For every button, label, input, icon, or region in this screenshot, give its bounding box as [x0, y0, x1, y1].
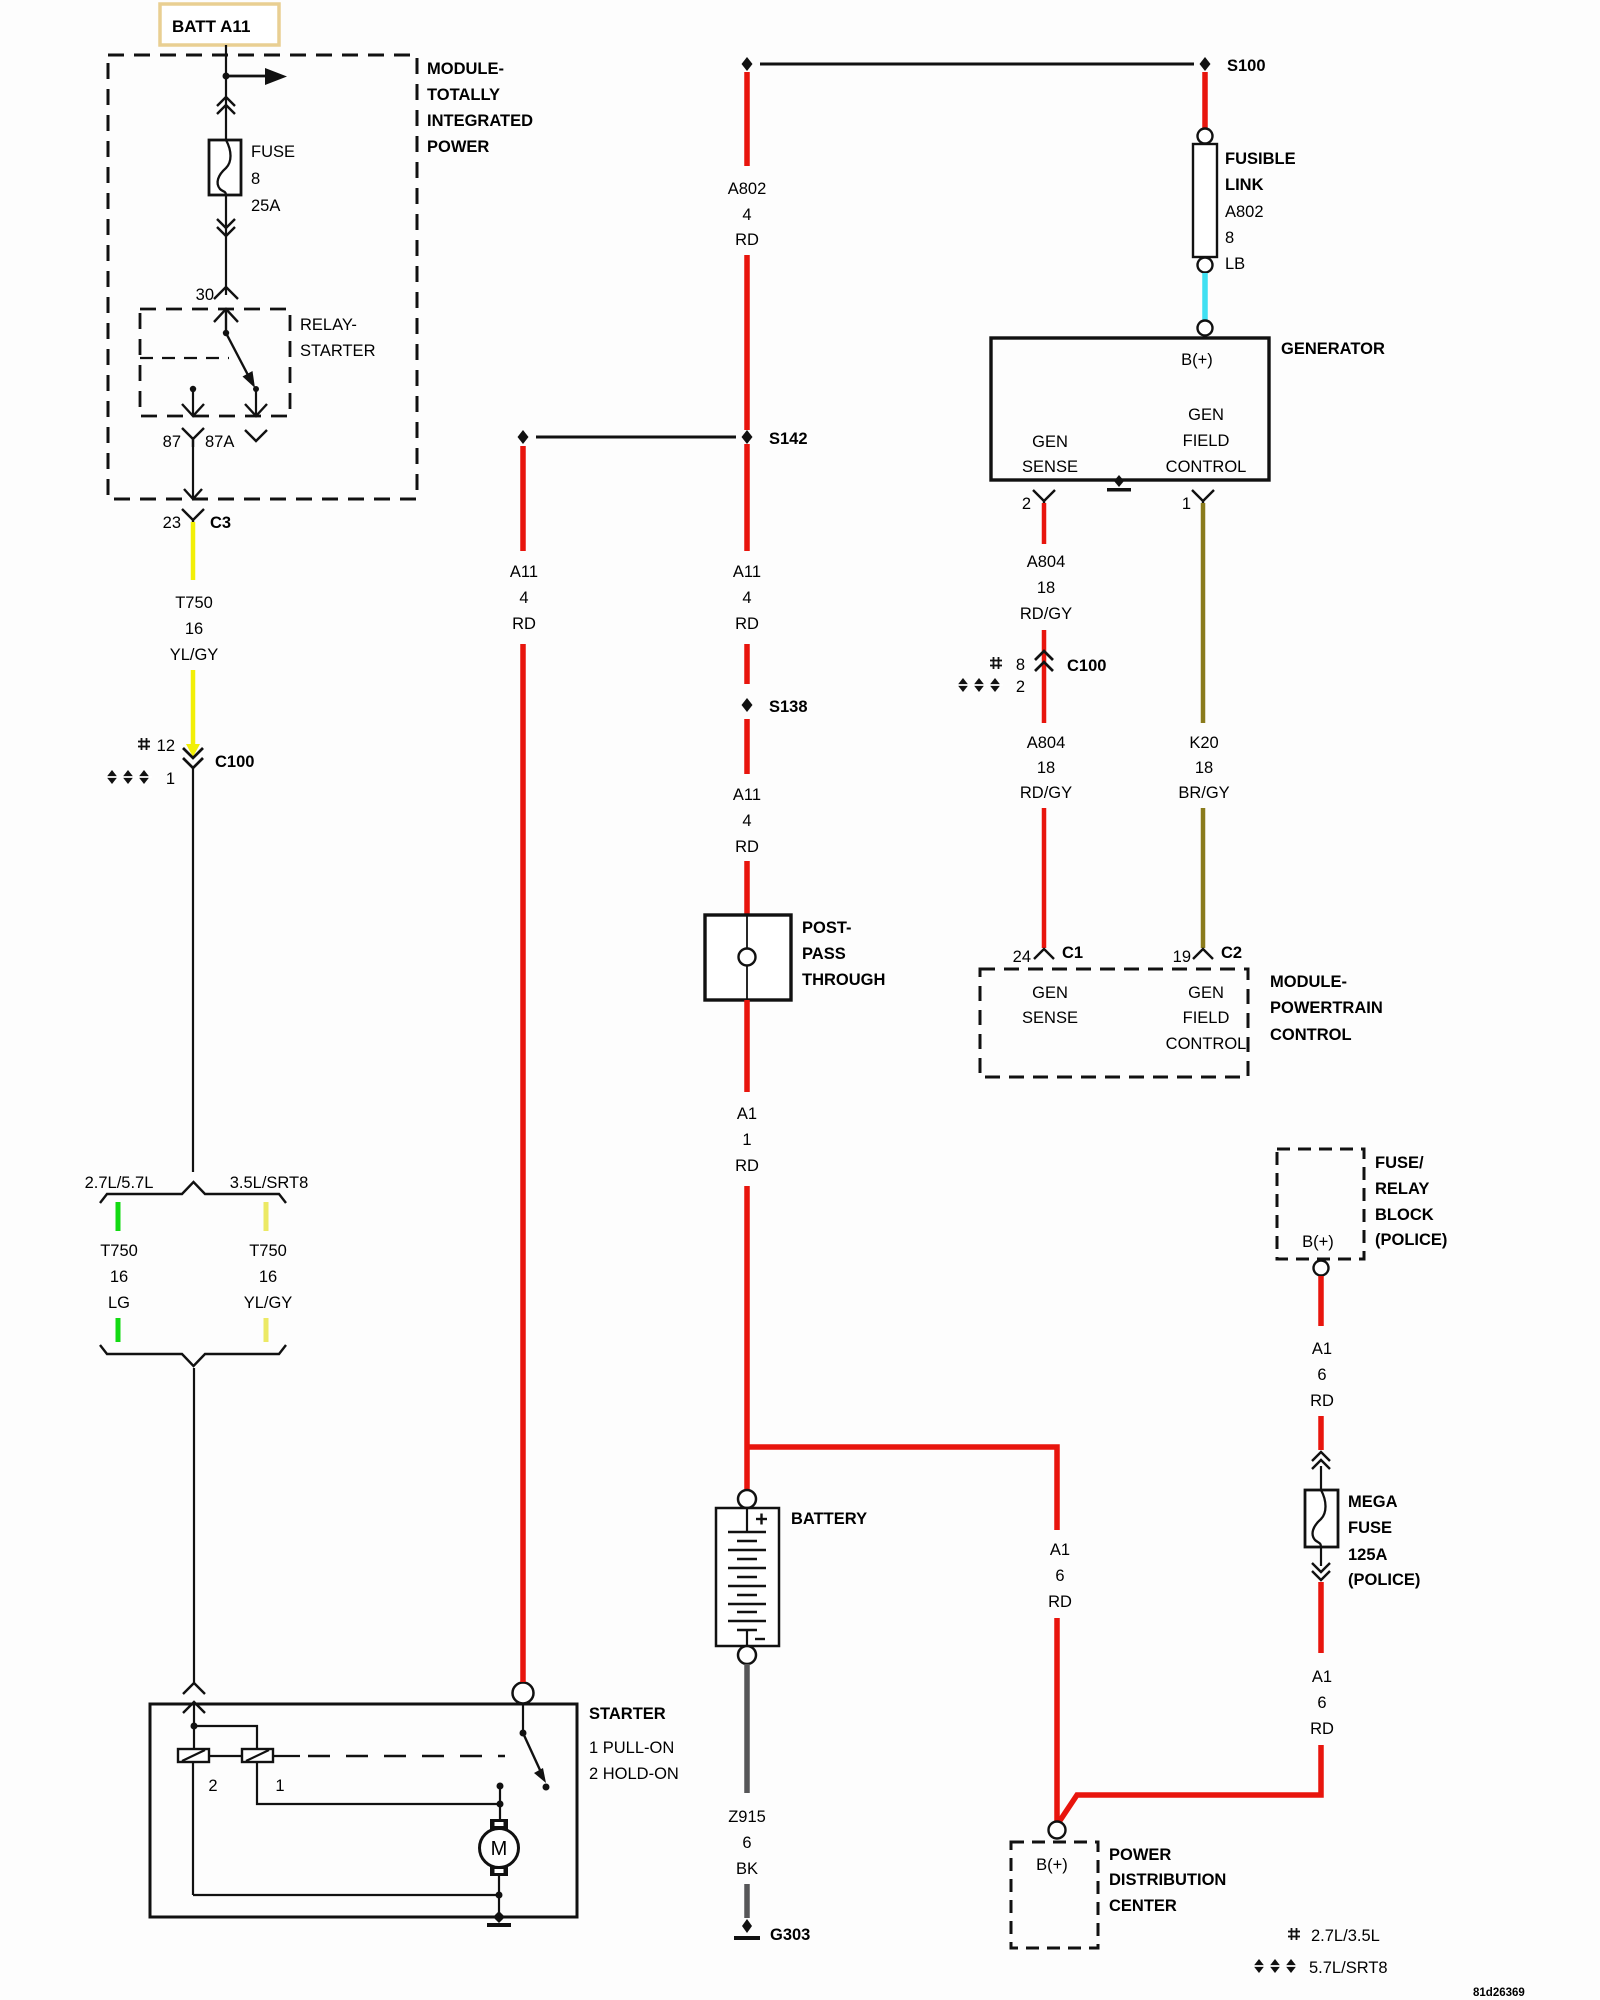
svg-text:1: 1 — [275, 1777, 284, 1795]
wire motor to ground — [193, 1876, 503, 1917]
connector C100 left half — [104, 737, 254, 788]
svg-text:RELAY-: RELAY- — [300, 316, 357, 334]
svg-text:2 HOLD-ON: 2 HOLD-ON — [589, 1765, 679, 1783]
svg-text:T750: T750 — [249, 1242, 287, 1260]
relay coil 2 — [178, 1749, 218, 1795]
svg-text:125A: 125A — [1348, 1546, 1388, 1564]
svg-text:M: M — [491, 1838, 508, 1860]
svg-text:B(+): B(+) — [1302, 1233, 1334, 1251]
svg-text:GEN: GEN — [1188, 984, 1224, 1002]
svg-text:23: 23 — [163, 514, 181, 532]
svg-text:(POLICE): (POLICE) — [1348, 1571, 1420, 1589]
svg-text:STARTER: STARTER — [300, 342, 376, 360]
svg-text:A804: A804 — [1027, 734, 1066, 752]
svg-text:2: 2 — [1016, 678, 1025, 696]
node engine variant merge — [100, 1345, 286, 1366]
svg-text:FUSE/: FUSE/ — [1375, 1154, 1424, 1172]
svg-text:B(+): B(+) — [1181, 351, 1213, 369]
svg-text:T750: T750 — [100, 1242, 138, 1260]
svg-text:POST-: POST- — [802, 919, 852, 937]
svg-text:CONTROL: CONTROL — [1166, 1035, 1247, 1053]
svg-text:S142: S142 — [769, 430, 808, 448]
connector PDC B+ ring — [1049, 1822, 1066, 1839]
svg-text:FUSIBLE: FUSIBLE — [1225, 150, 1296, 168]
wire A1 1 RD — [735, 1000, 759, 1490]
svg-text:BATT A11: BATT A11 — [172, 17, 250, 36]
junction POST-PASS THROUGH — [705, 915, 885, 1000]
pin 87A — [205, 430, 267, 451]
svg-text:YL/GY: YL/GY — [244, 1294, 293, 1312]
svg-text:4: 4 — [742, 812, 751, 830]
svg-text:18: 18 — [1037, 759, 1055, 777]
svg-text:RD/GY: RD/GY — [1020, 784, 1072, 802]
connector double chevron up — [217, 97, 235, 114]
svg-text:RELAY: RELAY — [1375, 1180, 1429, 1198]
svg-text:2.7L/5.7L: 2.7L/5.7L — [85, 1174, 154, 1192]
relay pin 87A leg — [245, 389, 267, 416]
svg-text:C100: C100 — [1067, 657, 1106, 675]
svg-text:BK: BK — [736, 1860, 758, 1878]
svg-text:RD: RD — [512, 615, 536, 633]
svg-text:FIELD: FIELD — [1183, 432, 1230, 450]
wire starter feed internal — [191, 1704, 258, 1749]
wire A1 6 RD police upper — [1310, 1276, 1334, 1450]
wire K20 18 BR/GY — [1178, 503, 1229, 948]
svg-text:YL/GY: YL/GY — [170, 646, 219, 664]
svg-text:INTEGRATED: INTEGRATED — [427, 112, 533, 130]
pin 87 — [163, 428, 204, 451]
wire T750 16 LG green — [100, 1202, 138, 1342]
svg-text:RD/GY: RD/GY — [1020, 605, 1072, 623]
splice S138 — [742, 698, 808, 716]
node legend 2.7L/3.5L — [1288, 1927, 1380, 1945]
svg-text:81d26369: 81d26369 — [1473, 1987, 1525, 1999]
wire batt feed into TIPM — [225, 45, 227, 140]
svg-text:FIELD: FIELD — [1183, 1009, 1230, 1027]
wire fuse to relay — [225, 195, 227, 295]
svg-text:POWER: POWER — [427, 138, 489, 156]
svg-text:DISTRIBUTION: DISTRIBUTION — [1109, 1871, 1226, 1889]
wire merge to starter — [193, 1368, 195, 1684]
svg-text:25A: 25A — [251, 197, 280, 215]
svg-text:(POLICE): (POLICE) — [1375, 1231, 1447, 1249]
svg-text:4: 4 — [742, 589, 751, 607]
svg-text:SENSE: SENSE — [1022, 1009, 1078, 1027]
svg-text:2.7L/3.5L: 2.7L/3.5L — [1311, 1927, 1380, 1945]
svg-text:A11: A11 — [510, 563, 538, 581]
svg-text:A1: A1 — [737, 1105, 757, 1123]
svg-text:16: 16 — [259, 1268, 277, 1286]
svg-text:RD: RD — [1310, 1392, 1334, 1410]
svg-text:6: 6 — [742, 1834, 751, 1852]
switch solenoid contact — [520, 1704, 550, 1791]
svg-text:Z915: Z915 — [728, 1808, 766, 1826]
svg-text:A1: A1 — [1312, 1340, 1332, 1358]
wire A802 4 RD upper — [728, 72, 767, 430]
svg-text:5.7L/SRT8: 5.7L/SRT8 — [1309, 1959, 1388, 1977]
wire LB cyan — [1202, 273, 1208, 320]
splice S142 — [518, 430, 808, 448]
wire A11 4 RD to starter — [510, 446, 538, 1682]
svg-text:1: 1 — [742, 1131, 751, 1149]
connector double chevron down — [217, 219, 235, 236]
connector starter B+ terminal ring — [513, 1683, 534, 1704]
svg-text:1: 1 — [166, 770, 175, 788]
svg-text:12: 12 — [157, 737, 175, 755]
pin 1 GEN FIELD CONTROL — [1182, 490, 1214, 513]
svg-text:PASS: PASS — [802, 945, 846, 963]
svg-text:GEN: GEN — [1032, 984, 1068, 1002]
node junction dot — [223, 73, 230, 80]
relay coil 1 — [242, 1749, 285, 1795]
module PCM box MODULE-POWERTRAIN CONTROL — [980, 969, 1383, 1077]
connector police B+ ring — [1314, 1261, 1329, 1276]
node legend 5.7L/SRT8 — [1251, 1959, 1388, 1977]
wire coil1 bottom to motor top — [257, 1762, 498, 1804]
svg-text:8: 8 — [1016, 656, 1025, 674]
connector C3 pin 23 — [163, 509, 231, 532]
svg-text:MEGA: MEGA — [1348, 1493, 1398, 1511]
pin 19 connector C2 — [1173, 944, 1242, 966]
ground starter case — [487, 1911, 511, 1927]
svg-text:S138: S138 — [769, 698, 808, 716]
relay contact arm — [214, 309, 259, 392]
svg-text:6: 6 — [1055, 1567, 1064, 1585]
wire switch to motor — [497, 1783, 504, 1820]
relay coil dashed line — [140, 357, 229, 359]
fuse MEGA FUSE 125A — [1305, 1490, 1420, 1589]
svg-text:THROUGH: THROUGH — [802, 971, 885, 989]
svg-text:S100: S100 — [1227, 57, 1266, 75]
svg-text:GEN: GEN — [1032, 433, 1068, 451]
svg-text:MODULE-: MODULE- — [1270, 973, 1347, 991]
svg-text:POWERTRAIN: POWERTRAIN — [1270, 999, 1383, 1017]
module PDC box POWER DISTRIBUTION CENTER — [1011, 1842, 1226, 1948]
svg-text:1 PULL-ON: 1 PULL-ON — [589, 1739, 674, 1757]
svg-text:4: 4 — [742, 206, 751, 224]
svg-text:FUSE: FUSE — [1348, 1519, 1392, 1537]
ground G303 — [734, 1919, 810, 1944]
fusible link A802 8 LB — [1193, 129, 1296, 274]
wire coil link — [209, 1755, 242, 1757]
wire coil1 to switch solid then dashed — [273, 1755, 505, 1757]
wire below mega fuse — [1320, 1547, 1322, 1566]
svg-text:A802: A802 — [1225, 203, 1264, 221]
svg-text:RD: RD — [735, 615, 759, 633]
svg-text:G303: G303 — [770, 1926, 810, 1944]
svg-text:RD: RD — [1048, 1593, 1072, 1611]
svg-text:RD: RD — [735, 231, 759, 249]
svg-text:8: 8 — [251, 170, 260, 188]
svg-text:GENERATOR: GENERATOR — [1281, 340, 1385, 358]
svg-text:LG: LG — [108, 1294, 130, 1312]
svg-text:CONTROL: CONTROL — [1270, 1026, 1352, 1044]
relay K-STARTER dashed box — [140, 309, 376, 416]
svg-text:RD: RD — [735, 1157, 759, 1175]
pin 2 GEN SENSE — [1022, 490, 1055, 513]
wire T750 16 YL/GY pale — [244, 1202, 293, 1342]
svg-text:LB: LB — [1225, 255, 1245, 273]
svg-text:1: 1 — [1182, 495, 1191, 513]
pin 24 connector C1 — [1013, 944, 1083, 966]
wire Z915 6 BK ground — [728, 1664, 766, 1918]
svg-text:BLOCK: BLOCK — [1375, 1206, 1434, 1224]
svg-text:A804: A804 — [1027, 553, 1066, 571]
connector double chevron down — [1312, 1563, 1330, 1580]
svg-text:8: 8 — [1225, 229, 1234, 247]
starter STARTER box — [150, 1704, 679, 1917]
wire into mega fuse — [1320, 1466, 1322, 1490]
svg-text:C100: C100 — [215, 753, 254, 771]
fuse FUSE 8 25A — [209, 140, 295, 215]
generator GENERATOR box — [991, 338, 1385, 480]
module TIPM box MODULE-TOTALLY INTEGRATED POWER — [108, 55, 533, 499]
svg-text:A11: A11 — [733, 563, 761, 581]
svg-text:CONTROL: CONTROL — [1166, 458, 1247, 476]
wire A804 18 RD/GY upper — [1020, 503, 1072, 723]
fuse block FUSE/RELAY BLOCK (POLICE) — [1277, 1149, 1447, 1259]
svg-text:TOTALLY: TOTALLY — [427, 86, 500, 104]
svg-text:16: 16 — [110, 1268, 128, 1286]
svg-text:A11: A11 — [733, 786, 761, 804]
battery BATTERY — [716, 1490, 867, 1664]
connector generator B+ ring — [1198, 321, 1213, 336]
svg-text:B(+): B(+) — [1036, 1856, 1068, 1874]
wire A11 4 RD lower — [733, 719, 761, 915]
wire 87 down to module edge — [184, 437, 202, 499]
svg-text:POWER: POWER — [1109, 1846, 1171, 1864]
svg-text:SENSE: SENSE — [1022, 458, 1078, 476]
svg-text:4: 4 — [519, 589, 528, 607]
wire A1 6 RD police lower — [1059, 1582, 1334, 1822]
svg-text:A802: A802 — [728, 180, 767, 198]
wire coil2 to motor bottom — [192, 1762, 194, 1895]
svg-text:2: 2 — [208, 1777, 217, 1795]
splice S100 — [742, 57, 1266, 75]
connector chevrons into starter — [183, 1683, 205, 1713]
svg-text:18: 18 — [1037, 579, 1055, 597]
svg-text:30: 30 — [196, 286, 214, 304]
wire T750 16 YL/GY yellow — [170, 522, 219, 757]
svg-text:16: 16 — [185, 620, 203, 638]
pin 30 — [196, 286, 238, 304]
svg-text:A1: A1 — [1312, 1668, 1332, 1686]
svg-text:GEN: GEN — [1188, 406, 1224, 424]
wire battery branch to PDC — [749, 1447, 1072, 1821]
svg-text:BR/GY: BR/GY — [1178, 784, 1229, 802]
wire A11 4 RD center — [733, 444, 761, 684]
wire A802 8 LB feed — [1202, 72, 1208, 128]
motor M starter motor — [480, 1819, 519, 1876]
svg-text:LINK: LINK — [1225, 176, 1264, 194]
svg-text:87: 87 — [163, 433, 181, 451]
power feed box BATT A11 — [160, 4, 279, 45]
svg-text:C1: C1 — [1062, 944, 1083, 962]
node engine variant split — [85, 1174, 309, 1203]
wire branch arrow to right — [226, 68, 287, 85]
svg-text:FUSE: FUSE — [251, 143, 295, 161]
relay pin 87 leg — [182, 386, 204, 416]
wire A804 18 RD/GY lower — [1020, 734, 1072, 948]
svg-text:24: 24 — [1013, 948, 1031, 966]
svg-text:C3: C3 — [210, 514, 231, 532]
svg-text:RD: RD — [735, 838, 759, 856]
wire C100 to engine split — [192, 768, 194, 1172]
svg-text:3.5L/SRT8: 3.5L/SRT8 — [230, 1174, 309, 1192]
svg-text:RD: RD — [1310, 1720, 1334, 1738]
svg-text:STARTER: STARTER — [589, 1705, 666, 1723]
ground generator case — [1107, 475, 1131, 492]
connector double chevron up — [1312, 1452, 1330, 1469]
svg-text:87A: 87A — [205, 433, 234, 451]
svg-text:C2: C2 — [1221, 944, 1242, 962]
svg-text:19: 19 — [1173, 948, 1191, 966]
svg-text:BATTERY: BATTERY — [791, 1510, 867, 1528]
svg-text:T750: T750 — [175, 594, 213, 612]
svg-text:6: 6 — [1317, 1694, 1326, 1712]
svg-text:2: 2 — [1022, 495, 1031, 513]
connector C100 right half — [955, 651, 1106, 696]
svg-text:K20: K20 — [1189, 734, 1218, 752]
svg-text:18: 18 — [1195, 759, 1213, 777]
svg-text:A1: A1 — [1050, 1541, 1070, 1559]
svg-text:MODULE-: MODULE- — [427, 60, 504, 78]
svg-text:CENTER: CENTER — [1109, 1897, 1177, 1915]
svg-text:6: 6 — [1317, 1366, 1326, 1384]
